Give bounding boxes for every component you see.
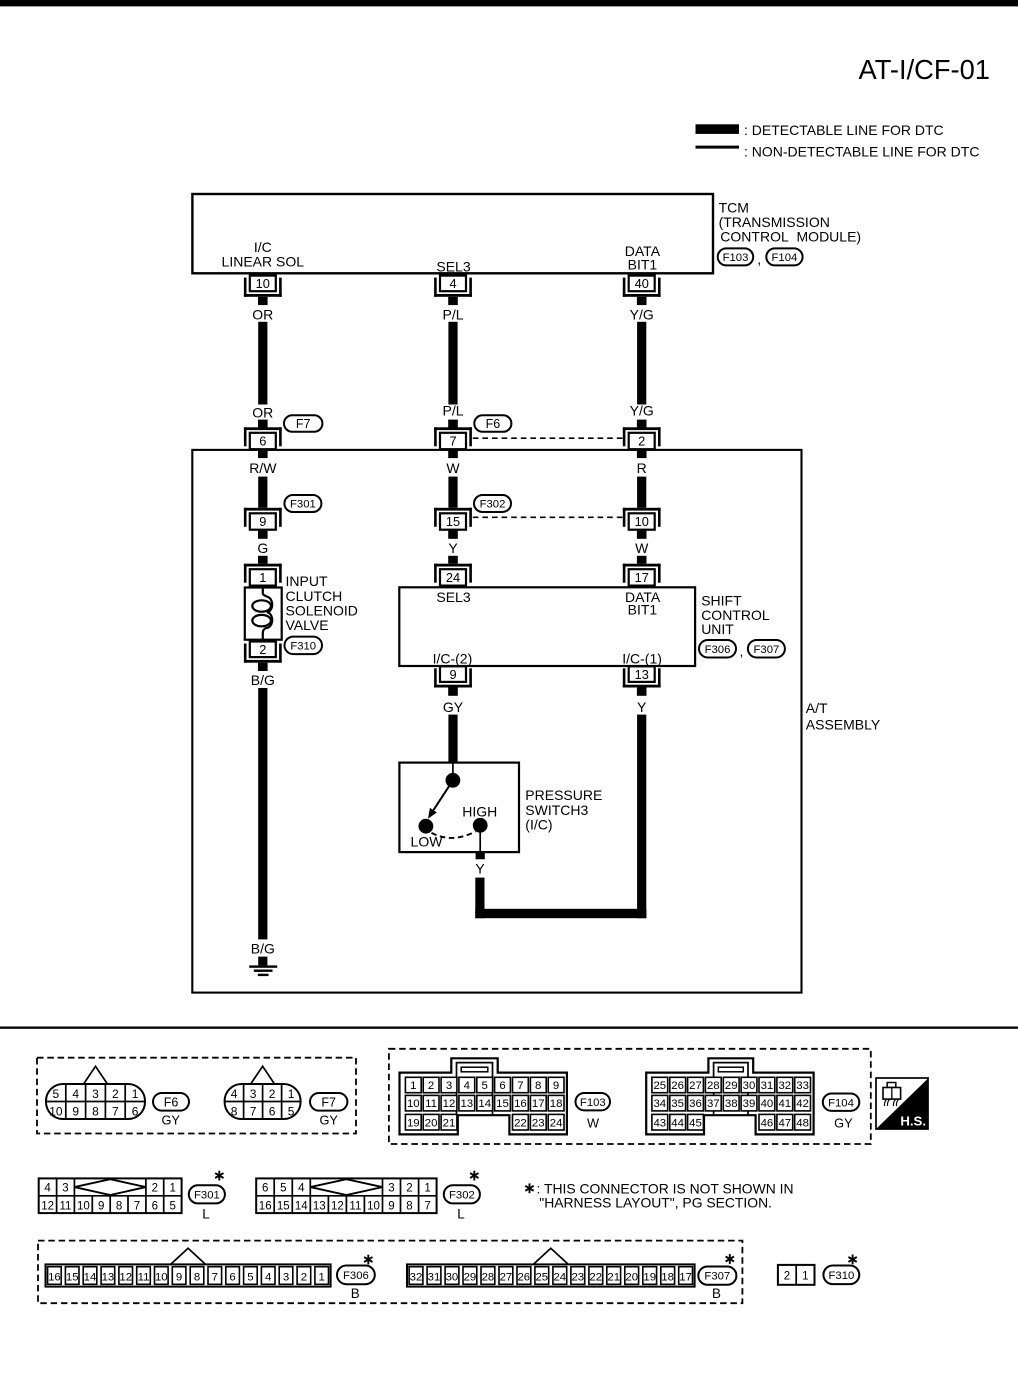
svg-text:6: 6 — [262, 1183, 268, 1195]
svg-text:F307: F307 — [754, 644, 780, 656]
wire Y column3 down to corner — [637, 715, 646, 919]
section separator line — [0, 1027, 1018, 1029]
wire stub below pin 15 — [448, 531, 458, 539]
svg-text:17: 17 — [679, 1271, 692, 1283]
svg-text:I/C-(2): I/C-(2) — [433, 650, 473, 666]
svg-text:36: 36 — [689, 1098, 702, 1110]
svg-text:A/T: A/T — [806, 700, 828, 716]
dashed throw arc LOW to HIGH — [432, 831, 476, 838]
svg-text:6: 6 — [132, 1105, 139, 1119]
svg-text:15: 15 — [66, 1271, 79, 1283]
svg-text:10: 10 — [155, 1271, 168, 1283]
svg-text:14: 14 — [478, 1098, 491, 1110]
svg-text:5: 5 — [247, 1271, 253, 1283]
svg-text:11: 11 — [60, 1200, 72, 1212]
svg-text:10: 10 — [367, 1200, 380, 1212]
svg-text:4: 4 — [298, 1183, 305, 1195]
svg-text:7: 7 — [250, 1105, 257, 1119]
svg-text:6: 6 — [152, 1200, 158, 1212]
asterisk F310 — [852, 1255, 854, 1265]
asterisk F301 — [218, 1171, 220, 1181]
svg-text:10: 10 — [256, 276, 270, 291]
svg-text:6: 6 — [499, 1080, 505, 1092]
svg-text:W: W — [587, 1116, 600, 1131]
svg-text:Y: Y — [637, 699, 647, 715]
svg-text:23: 23 — [571, 1271, 584, 1283]
connector oval F7 label — [310, 1093, 347, 1111]
svg-text:9: 9 — [259, 514, 266, 529]
dashed harness box 2 — [389, 1049, 871, 1144]
svg-text:25: 25 — [535, 1271, 548, 1283]
connector oval F302 label — [444, 1185, 480, 1203]
svg-text:7: 7 — [517, 1080, 523, 1092]
wire stub above pin 17 — [637, 556, 647, 564]
svg-text:4: 4 — [72, 1087, 79, 1101]
svg-text:32: 32 — [778, 1080, 791, 1092]
svg-text:10: 10 — [635, 514, 649, 529]
svg-text:22: 22 — [514, 1117, 527, 1129]
svg-text:37: 37 — [707, 1098, 720, 1110]
svg-text:17: 17 — [635, 570, 649, 585]
connector face F104 — [646, 1058, 813, 1134]
pin 15 (col2) — [434, 508, 472, 511]
svg-text:F104: F104 — [828, 1097, 854, 1109]
svg-text:33: 33 — [796, 1080, 809, 1092]
wire stub above pin 7 — [448, 420, 458, 428]
svg-text:13: 13 — [102, 1271, 115, 1283]
svg-text:F310: F310 — [290, 640, 316, 652]
svg-text:15: 15 — [277, 1200, 290, 1212]
svg-text:9: 9 — [449, 667, 456, 682]
connector oval F310 (solenoid) — [285, 637, 323, 655]
svg-text:21: 21 — [607, 1271, 620, 1283]
svg-text:F307: F307 — [704, 1271, 730, 1283]
svg-text:F6: F6 — [164, 1095, 179, 1109]
wire stub below switch — [476, 852, 485, 859]
svg-text:7: 7 — [449, 434, 456, 449]
svg-text:7: 7 — [112, 1105, 119, 1119]
svg-text:28: 28 — [482, 1271, 495, 1283]
wire stub below pin 10 — [637, 531, 647, 539]
svg-text:R/W: R/W — [249, 460, 277, 476]
svg-text:GY: GY — [443, 699, 464, 715]
svg-text:39: 39 — [743, 1098, 756, 1110]
svg-text:11: 11 — [138, 1271, 150, 1283]
pin 1 (solenoid) — [244, 564, 282, 567]
svg-text:9: 9 — [553, 1080, 559, 1092]
svg-text:B/G: B/G — [251, 941, 275, 957]
svg-text:4: 4 — [449, 276, 456, 291]
svg-text:19: 19 — [643, 1271, 656, 1283]
svg-text:10: 10 — [49, 1105, 63, 1119]
svg-text:7: 7 — [212, 1271, 218, 1283]
svg-text:W: W — [446, 460, 460, 476]
svg-text:I/C: I/C — [254, 239, 272, 255]
connector face F301 — [39, 1178, 182, 1213]
svg-text:22: 22 — [589, 1271, 602, 1283]
svg-text:UNIT: UNIT — [701, 621, 734, 637]
svg-text:B: B — [712, 1286, 721, 1301]
connector oval F104 (TCM) — [766, 248, 802, 265]
svg-text:Y: Y — [475, 861, 485, 877]
connector oval F7 — [284, 415, 322, 432]
svg-text:5: 5 — [53, 1087, 60, 1101]
switch common pole line — [452, 763, 454, 776]
wire stub above solenoid pin 1 — [258, 556, 268, 564]
pin 13 (shift unit I/C-(1)) — [629, 666, 655, 682]
svg-text:CONTROL MODULE): CONTROL MODULE) — [720, 229, 861, 245]
svg-text:BIT1: BIT1 — [628, 257, 658, 273]
svg-text:5: 5 — [482, 1080, 488, 1092]
svg-text:SHIFT: SHIFT — [701, 592, 742, 608]
svg-text:8: 8 — [116, 1200, 122, 1212]
connector face F310 — [778, 1265, 815, 1285]
svg-text:25: 25 — [653, 1080, 666, 1092]
svg-text:4: 4 — [464, 1080, 470, 1092]
wire stub below pin 2 — [637, 450, 647, 458]
svg-text:26: 26 — [671, 1080, 684, 1092]
svg-text:8: 8 — [535, 1080, 541, 1092]
solenoid coil symbol — [263, 588, 267, 597]
svg-text:1: 1 — [410, 1080, 416, 1092]
svg-text:6: 6 — [229, 1271, 235, 1283]
pin 9 (shift unit I/C-(2)) — [440, 666, 466, 682]
svg-text:F6: F6 — [486, 417, 501, 431]
svg-text:F310: F310 — [829, 1270, 855, 1282]
svg-text:HIGH: HIGH — [462, 803, 497, 819]
svg-text:16: 16 — [259, 1200, 272, 1212]
svg-text:7: 7 — [134, 1200, 140, 1212]
svg-text:15: 15 — [446, 514, 460, 529]
svg-text:,: , — [740, 643, 744, 659]
svg-text:12: 12 — [41, 1200, 54, 1212]
asterisk F307 — [729, 1254, 731, 1264]
svg-text:L: L — [457, 1206, 464, 1221]
pin 10 (col3) — [623, 508, 661, 511]
wire Y horizontal run — [475, 909, 646, 918]
wire stub above pin 6 — [258, 420, 268, 428]
svg-text:34: 34 — [653, 1098, 666, 1110]
svg-text:9: 9 — [98, 1200, 104, 1212]
connector oval F301 label — [189, 1185, 225, 1203]
svg-text:8: 8 — [92, 1105, 99, 1119]
svg-text:F301: F301 — [290, 499, 316, 511]
svg-text:40: 40 — [635, 276, 649, 291]
svg-text:27: 27 — [500, 1271, 513, 1283]
svg-text:4: 4 — [265, 1271, 271, 1283]
pin 7 (A/T col2) — [434, 427, 472, 430]
connector oval F307 (shift unit) — [748, 640, 785, 658]
svg-text:8: 8 — [406, 1200, 412, 1212]
connector face F103 — [400, 1058, 567, 1134]
connector oval F306 (shift unit) — [699, 640, 736, 658]
svg-text:3: 3 — [92, 1087, 99, 1101]
wire P/L column2 — [448, 322, 457, 405]
H.S. logo — [876, 1078, 928, 1129]
wire W column2 — [448, 477, 457, 508]
svg-text:26: 26 — [517, 1271, 530, 1283]
wire R/W column1 — [258, 477, 267, 508]
svg-text:18: 18 — [550, 1098, 563, 1110]
svg-text:: NON-DETECTABLE LINE FOR DTC: : NON-DETECTABLE LINE FOR DTC — [744, 144, 979, 160]
svg-text:40: 40 — [761, 1098, 774, 1110]
svg-text:35: 35 — [671, 1098, 684, 1110]
svg-text:F301: F301 — [194, 1189, 220, 1201]
svg-text:24: 24 — [550, 1117, 563, 1129]
svg-text:12: 12 — [331, 1200, 344, 1212]
svg-text:28: 28 — [707, 1080, 720, 1092]
svg-text:5: 5 — [288, 1105, 295, 1119]
wire stub below pin 9 — [258, 531, 268, 539]
svg-text:16: 16 — [48, 1271, 61, 1283]
wire stub above pin 2 — [637, 420, 647, 428]
svg-text:Y/G: Y/G — [630, 403, 654, 419]
svg-text:30: 30 — [446, 1271, 459, 1283]
asterisk F302 — [473, 1171, 475, 1181]
wire R column3 — [637, 477, 646, 508]
svg-text:PRESSURE: PRESSURE — [525, 787, 602, 803]
svg-text:15: 15 — [496, 1098, 509, 1110]
svg-text:B/G: B/G — [251, 672, 275, 688]
svg-text:27: 27 — [689, 1080, 702, 1092]
svg-text:I/C-(1): I/C-(1) — [622, 650, 662, 666]
svg-text:(I/C): (I/C) — [525, 817, 552, 833]
svg-text:"HARNESS LAYOUT", PG SECTION.: "HARNESS LAYOUT", PG SECTION. — [539, 1194, 772, 1210]
svg-text:14: 14 — [295, 1200, 308, 1212]
svg-text:3: 3 — [283, 1271, 289, 1283]
svg-text:47: 47 — [778, 1117, 791, 1129]
dashed link pin15 to pin10 — [473, 516, 623, 518]
svg-text:INPUT: INPUT — [286, 573, 328, 589]
svg-text:38: 38 — [725, 1098, 738, 1110]
A/T ASSEMBLY box — [192, 450, 801, 993]
svg-text:G: G — [257, 540, 268, 556]
svg-text:OR: OR — [252, 306, 273, 322]
svg-text:6: 6 — [269, 1105, 276, 1119]
connector oval F104 label — [823, 1094, 860, 1111]
svg-text:3: 3 — [250, 1087, 257, 1101]
svg-text:32: 32 — [410, 1271, 423, 1283]
svg-text:2: 2 — [112, 1087, 119, 1101]
svg-text:43: 43 — [653, 1117, 666, 1129]
switch HIGH output line — [479, 825, 481, 852]
note about connector not shown — [529, 1183, 531, 1193]
connector oval F310 label — [823, 1266, 859, 1285]
svg-text:Y: Y — [448, 540, 458, 556]
switch HIGH contact dot — [473, 818, 488, 833]
svg-text:1: 1 — [169, 1183, 175, 1195]
svg-text:1: 1 — [424, 1183, 430, 1195]
svg-text:13: 13 — [635, 667, 649, 682]
connector face F307 — [533, 1248, 568, 1264]
svg-text:2: 2 — [784, 1271, 790, 1283]
H.S. connector icon — [887, 1083, 896, 1088]
svg-text:20: 20 — [425, 1117, 438, 1129]
pin 40 (TCM DATA BIT1) — [629, 276, 655, 292]
svg-text:LOW: LOW — [411, 833, 444, 849]
svg-text:F104: F104 — [772, 252, 798, 264]
wire OR column1 — [258, 322, 267, 405]
connector oval F307 label — [698, 1267, 736, 1285]
wire GY column2 — [448, 715, 457, 764]
svg-text:1: 1 — [132, 1087, 139, 1101]
svg-text:AT-I/CF-01: AT-I/CF-01 — [859, 54, 990, 85]
pin 9 (col1) — [244, 508, 282, 511]
svg-text:3: 3 — [62, 1183, 68, 1195]
pin 2 (solenoid) — [250, 642, 276, 658]
svg-text:4: 4 — [231, 1087, 238, 1101]
svg-text:H.S.: H.S. — [900, 1113, 926, 1128]
svg-text:F7: F7 — [321, 1095, 336, 1109]
dashed harness box 3 — [38, 1241, 742, 1304]
svg-text:SEL3: SEL3 — [436, 589, 470, 605]
svg-text:F306: F306 — [343, 1270, 369, 1282]
pin 6 (A/T col1) — [244, 427, 282, 430]
svg-text:1: 1 — [288, 1087, 295, 1101]
svg-text:P/L: P/L — [442, 403, 463, 419]
svg-text:29: 29 — [725, 1080, 738, 1092]
connector oval F6 label — [153, 1093, 189, 1111]
asterisk F306 — [367, 1255, 369, 1265]
connector face F7 — [250, 1066, 274, 1084]
svg-text:5: 5 — [169, 1200, 175, 1212]
svg-text:13: 13 — [313, 1200, 326, 1212]
svg-text:19: 19 — [407, 1117, 420, 1129]
connector oval F6 — [474, 415, 511, 432]
wire stub below pin 7 — [448, 450, 458, 458]
svg-text:3: 3 — [388, 1183, 394, 1195]
pin 10 (TCM I/C LINEAR SOL) — [250, 276, 276, 292]
wire Y/G column3 — [637, 322, 646, 405]
svg-text:11: 11 — [425, 1098, 437, 1110]
svg-text:LINEAR SOL: LINEAR SOL — [222, 254, 305, 270]
wire B/G column1 — [258, 688, 267, 939]
ground symbol — [258, 957, 267, 966]
svg-text:9: 9 — [176, 1271, 182, 1283]
svg-text:14: 14 — [84, 1271, 97, 1283]
svg-text:1: 1 — [802, 1271, 808, 1283]
svg-text:7: 7 — [424, 1200, 430, 1212]
svg-text:2: 2 — [259, 642, 266, 657]
svg-text:17: 17 — [532, 1098, 545, 1110]
svg-text:L: L — [202, 1206, 209, 1221]
svg-text:GY: GY — [161, 1113, 180, 1128]
wire stub above pin 24 — [448, 556, 458, 564]
svg-text:45: 45 — [689, 1117, 702, 1129]
svg-text:P/L: P/L — [442, 306, 463, 322]
svg-text:13: 13 — [460, 1098, 473, 1110]
pin 17 (shift control unit DATA BIT1) — [623, 564, 661, 567]
svg-text:TCM: TCM — [719, 199, 749, 215]
svg-text:12: 12 — [119, 1271, 132, 1283]
pin 2 (A/T col3) — [623, 427, 661, 430]
svg-text:18: 18 — [661, 1271, 674, 1283]
svg-text:46: 46 — [761, 1117, 774, 1129]
PRESSURE SWITCH3 box — [399, 763, 519, 853]
svg-text:W: W — [635, 540, 649, 556]
pin 4 (TCM SEL3) — [440, 276, 466, 292]
dashed harness box 1 — [37, 1058, 356, 1134]
svg-text:SWITCH3: SWITCH3 — [525, 802, 588, 818]
svg-text:11: 11 — [349, 1200, 361, 1212]
connector oval F103 label — [576, 1093, 611, 1110]
svg-text:9: 9 — [388, 1200, 394, 1212]
svg-text:30: 30 — [743, 1080, 756, 1092]
wire stub below pin 6 — [258, 450, 268, 458]
svg-text:BIT1: BIT1 — [628, 602, 658, 618]
connector face F6 — [83, 1066, 107, 1084]
svg-text:3: 3 — [446, 1080, 452, 1092]
switch arm with arrow to LOW — [433, 780, 453, 810]
svg-text:31: 31 — [428, 1271, 441, 1283]
svg-text:44: 44 — [671, 1117, 684, 1129]
svg-text:F302: F302 — [480, 499, 506, 511]
dashed link pin7 to pin2 — [473, 437, 623, 439]
switch LOW contact dot — [419, 819, 434, 834]
svg-text:CLUTCH: CLUTCH — [286, 588, 343, 604]
svg-text:29: 29 — [464, 1271, 477, 1283]
svg-text:6: 6 — [259, 434, 266, 449]
connector oval F302 — [474, 495, 511, 512]
connector oval F103 (TCM) — [718, 248, 754, 265]
svg-text:41: 41 — [778, 1098, 791, 1110]
svg-text:SOLENOID: SOLENOID — [286, 603, 358, 619]
svg-text:2: 2 — [152, 1183, 158, 1195]
svg-text:48: 48 — [796, 1117, 809, 1129]
legend non-detectable line swatch — [696, 146, 740, 149]
svg-text:12: 12 — [443, 1098, 456, 1110]
svg-text:OR: OR — [252, 405, 273, 421]
svg-text:16: 16 — [514, 1098, 527, 1110]
connector oval F301 — [284, 495, 321, 512]
svg-text:2: 2 — [406, 1183, 412, 1195]
switch common junction dot — [446, 773, 461, 788]
svg-text:9: 9 — [72, 1105, 79, 1119]
svg-text:ASSEMBLY: ASSEMBLY — [806, 717, 881, 733]
connector face F302 — [256, 1178, 436, 1213]
svg-text:10: 10 — [77, 1200, 90, 1212]
svg-text:24: 24 — [446, 570, 460, 585]
svg-text:2: 2 — [301, 1271, 307, 1283]
connector face F306 — [171, 1248, 206, 1264]
svg-text:1: 1 — [259, 570, 266, 585]
svg-text:24: 24 — [553, 1271, 566, 1283]
top border bar — [0, 0, 1018, 6]
svg-text:10: 10 — [407, 1098, 420, 1110]
svg-text:5: 5 — [280, 1183, 286, 1195]
svg-text:F306: F306 — [705, 644, 731, 656]
svg-text:: DETECTABLE LINE FOR DTC: : DETECTABLE LINE FOR DTC — [744, 122, 944, 138]
svg-text:1: 1 — [319, 1271, 325, 1283]
svg-text:R: R — [637, 460, 647, 476]
svg-text:VALVE: VALVE — [286, 617, 329, 633]
svg-text:GY: GY — [834, 1116, 853, 1131]
svg-text:F7: F7 — [296, 417, 311, 431]
solenoid coil body — [245, 588, 282, 640]
svg-text:23: 23 — [532, 1117, 545, 1129]
svg-text:F302: F302 — [449, 1189, 475, 1201]
svg-text:42: 42 — [796, 1098, 809, 1110]
SHIFT CONTROL UNIT box — [399, 587, 695, 666]
TCM box — [192, 194, 713, 273]
svg-text:,: , — [757, 251, 761, 267]
svg-text:8: 8 — [194, 1271, 200, 1283]
pin 24 (shift control unit SEL3) — [434, 564, 472, 567]
svg-text:4: 4 — [44, 1183, 51, 1195]
svg-text:F103: F103 — [723, 252, 749, 264]
svg-text:Y/G: Y/G — [630, 306, 654, 322]
svg-text:2: 2 — [428, 1080, 434, 1092]
